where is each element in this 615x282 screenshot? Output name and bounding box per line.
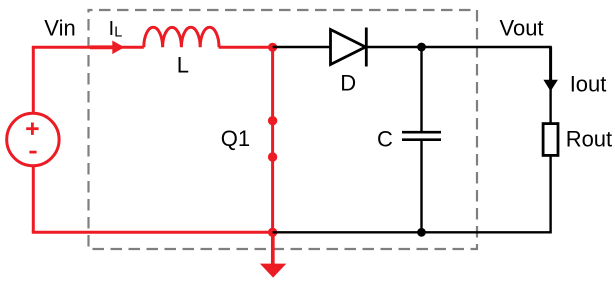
- wire: Q1 vertical branch: [271, 47, 274, 232]
- svg-text:Vout: Vout: [500, 16, 544, 41]
- voltage source Vin: [7, 113, 59, 165]
- resistor Rout: [543, 124, 558, 156]
- svg-text:Q1: Q1: [221, 126, 250, 151]
- node IL current arrow: [90, 41, 124, 55]
- capacitor C: [402, 132, 441, 140]
- svg-text:Iout: Iout: [570, 71, 607, 96]
- svg-text:C: C: [377, 126, 393, 151]
- wire: source bottom stem: [32, 166, 35, 232]
- wire: bottom-left red return: [33, 231, 272, 233]
- node Iout current arrow: [543, 47, 558, 91]
- wire: arrow to resistor top: [549, 88, 551, 123]
- svg-text:L: L: [177, 52, 189, 77]
- wire: resistor bottom to return: [550, 155, 551, 232]
- svg-text:Rout: Rout: [566, 126, 612, 151]
- transistor Q1 lower contact dot: [268, 152, 277, 161]
- node: ground junction dot: [268, 228, 277, 237]
- wire: top-left red segment: [33, 47, 144, 49]
- transistor Q1 upper contact dot: [268, 116, 277, 125]
- wire: capacitor top stem: [420, 47, 422, 131]
- wire: capacitor bottom stem: [420, 141, 422, 233]
- wire: source top stem: [32, 47, 35, 113]
- node: cap bottom junction dot: [417, 228, 426, 237]
- svg-text:Vin: Vin: [44, 16, 75, 41]
- ground: [260, 232, 286, 277]
- wire: switch node to diode anode: [273, 46, 331, 48]
- converter boundary dashed box: [89, 10, 478, 249]
- node: switch node junction dot: [268, 43, 277, 52]
- diode D: [331, 28, 367, 67]
- wire: inductor to switch node: [219, 46, 273, 49]
- wire: bottom black return: [273, 231, 551, 233]
- wire: diode cathode to output corner: [366, 47, 550, 48]
- svg-text:IL: IL: [109, 17, 123, 40]
- svg-text:D: D: [340, 71, 356, 96]
- inductor L: [144, 27, 219, 47]
- node: cap top junction dot: [417, 43, 426, 52]
